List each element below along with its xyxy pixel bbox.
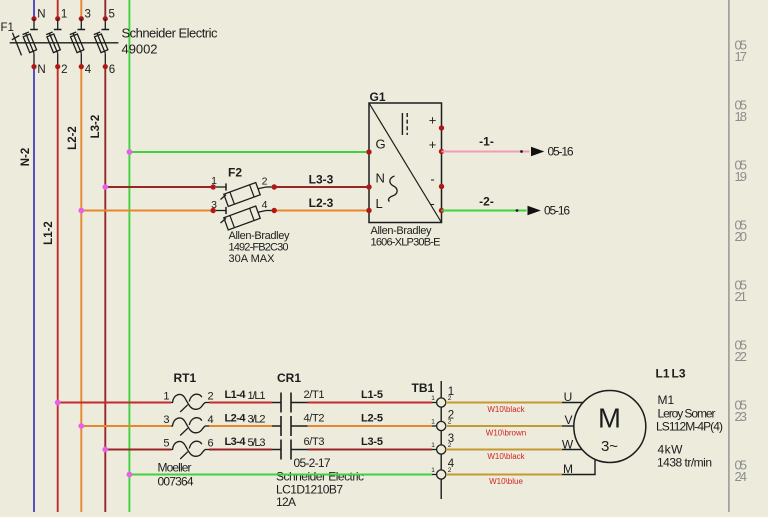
svg-text:Allen-Bradley: Allen-Bradley — [229, 230, 291, 242]
G1 terminal dots — [366, 125, 444, 213]
fuse F2 pole 2 pin numbers — [211, 199, 268, 211]
svg-text:2/T1: 2/T1 — [304, 389, 325, 401]
wire W10 core 3 — [446, 449, 583, 451]
svg-text:3: 3 — [85, 9, 91, 21]
row reference 05-24 — [735, 458, 748, 485]
svg-text:L3-3: L3-3 — [309, 172, 334, 186]
svg-text:5/L3: 5/L3 — [248, 437, 266, 449]
wire L2-3 F2.4 to G1.L — [274, 210, 369, 212]
svg-text:L3-5: L3-5 — [361, 436, 383, 448]
wire L2 feeder to RT1 pole 2 — [81, 425, 171, 427]
arrow reference 05-16 lower — [528, 204, 571, 218]
svg-text:W10\black: W10\black — [487, 452, 525, 461]
svg-text:N-2: N-2 — [20, 148, 32, 167]
svg-text:G: G — [376, 137, 386, 152]
svg-text:2: 2 — [262, 176, 268, 188]
svg-text:W10\brown: W10\brown — [486, 428, 526, 437]
svg-text:1: 1 — [431, 419, 435, 426]
svg-text:L3-2: L3-2 — [90, 115, 102, 139]
svg-text:Schneider Electric: Schneider Electric — [122, 26, 219, 41]
svg-text:L2-2: L2-2 — [67, 126, 79, 150]
G1 AC sine symbol — [389, 176, 398, 202]
motor M1 annotation — [656, 366, 724, 469]
svg-text:2: 2 — [448, 467, 452, 474]
drawing frame column line — [728, 0, 730, 512]
motor M1 — [574, 391, 646, 463]
svg-text:4kW: 4kW — [658, 442, 684, 456]
svg-text:M: M — [598, 403, 621, 434]
svg-text:-: - — [430, 172, 434, 187]
terminal TB1.1 — [431, 386, 454, 407]
svg-text:6/T3: 6/T3 — [304, 436, 325, 448]
svg-text:L: L — [376, 196, 383, 211]
svg-text:+: + — [429, 113, 437, 128]
junction bus pole 3 — [102, 447, 108, 453]
svg-text:2: 2 — [448, 395, 452, 402]
svg-text:Moeller: Moeller — [158, 461, 192, 475]
row reference 05-23 — [735, 398, 748, 425]
contactor CR1 pole 3 contact — [281, 440, 291, 460]
svg-text:05-16: 05-16 — [548, 145, 574, 159]
terminal strip TB1 rail — [440, 381, 442, 499]
svg-text:Allen-Bradley: Allen-Bradley — [371, 225, 433, 237]
svg-text:L2-5: L2-5 — [361, 413, 383, 425]
svg-text:W10\blue: W10\blue — [489, 477, 523, 486]
svg-text:1: 1 — [211, 175, 217, 187]
svg-text:6: 6 — [109, 64, 115, 76]
svg-text:007364: 007364 — [158, 475, 194, 489]
svg-text:1: 1 — [431, 467, 435, 474]
svg-text:3~: 3~ — [601, 438, 618, 455]
svg-text:M: M — [563, 462, 573, 476]
junction L2 bus — [78, 208, 84, 214]
contactor CR1 pole 2 contact — [281, 416, 291, 436]
wire green bus to TB1.4 — [129, 474, 436, 476]
svg-text:Schneider Electric: Schneider Electric — [276, 470, 364, 484]
svg-text:21: 21 — [735, 289, 748, 304]
svg-text:W: W — [562, 437, 574, 451]
svg-text:Leroy Somer: Leroy Somer — [658, 406, 716, 420]
svg-text:2: 2 — [448, 442, 452, 449]
CR1 part text — [276, 470, 364, 510]
wire -2- green DC- — [442, 209, 527, 212]
svg-text:17: 17 — [735, 49, 748, 64]
svg-text:19: 19 — [735, 169, 748, 184]
junction L3 bus — [102, 184, 108, 190]
svg-text:2: 2 — [448, 419, 452, 426]
svg-text:1438 tr/min: 1438 tr/min — [657, 456, 712, 470]
CR1 cross-reference 05-2-17 — [291, 456, 331, 470]
junction green bus — [126, 149, 132, 155]
svg-text:L1-4: L1-4 — [225, 389, 247, 401]
svg-text:F2: F2 — [228, 166, 242, 180]
wire L1-4 RT1 to CR1 — [209, 402, 281, 404]
svg-text:20: 20 — [735, 229, 748, 244]
svg-text:L2-4: L2-4 — [225, 413, 247, 425]
svg-text:L3: L3 — [672, 366, 686, 380]
power supply G1 box — [369, 103, 442, 223]
svg-text:+: + — [429, 137, 437, 152]
wire L2-4 RT1 to CR1 — [209, 425, 281, 427]
wire N-2 vertical blue bus — [33, 0, 35, 512]
svg-text:TB1: TB1 — [412, 381, 435, 395]
row reference 05-22 — [735, 338, 748, 365]
fuse F2 pole 1 — [211, 183, 277, 207]
svg-text:5: 5 — [109, 9, 115, 21]
svg-text:4: 4 — [262, 199, 268, 211]
svg-text:U: U — [564, 390, 573, 404]
svg-text:1606-XLP30B-E: 1606-XLP30B-E — [371, 237, 441, 249]
svg-text:05-16: 05-16 — [544, 204, 570, 218]
junction bus pole 1 — [55, 400, 61, 406]
svg-text:L1: L1 — [656, 366, 670, 380]
F1 part text Schneider Electric 49002 — [122, 26, 219, 57]
svg-text:12A: 12A — [276, 495, 296, 509]
fuse-switch F1 actuator — [12, 33, 22, 56]
svg-text:3/L2: 3/L2 — [248, 413, 266, 425]
svg-text:2: 2 — [61, 64, 67, 76]
G1 terminal labels — [376, 113, 437, 212]
fuse F1 pole 3 — [70, 9, 92, 77]
svg-text:3: 3 — [211, 199, 217, 211]
wire L3-3 F2.2 to G1.N — [274, 186, 369, 188]
svg-text:-: - — [430, 196, 434, 211]
svg-text:4: 4 — [85, 64, 92, 76]
svg-text:24: 24 — [735, 469, 748, 484]
wire L3-2 vertical dark-red bus — [104, 0, 106, 512]
row reference 05-20 — [735, 218, 748, 245]
svg-text:23: 23 — [735, 409, 748, 424]
RT1 pole 2 pin numbers — [163, 414, 213, 426]
G1 DC symbol — [402, 113, 407, 135]
svg-text:F1: F1 — [1, 22, 14, 34]
svg-text:L3-4: L3-4 — [225, 436, 247, 448]
wire W10 core 1 — [446, 402, 583, 404]
svg-text:30A MAX: 30A MAX — [229, 253, 276, 265]
fuse F2 pole 2 — [211, 206, 277, 230]
svg-text:1: 1 — [431, 442, 435, 449]
junction bus pole 2 — [78, 423, 84, 429]
svg-text:-1-: -1- — [479, 134, 494, 148]
F2 part text — [229, 230, 291, 265]
contactor CR1 pole 1 contact — [281, 393, 291, 413]
svg-text:05-2-17: 05-2-17 — [294, 456, 331, 470]
svg-text:4: 4 — [208, 414, 214, 426]
wire L3 feeder to RT1 pole 3 — [105, 449, 171, 451]
junction green bus bottom — [126, 472, 132, 478]
row reference 05-17 — [735, 38, 748, 65]
svg-text:N: N — [37, 64, 45, 76]
wire L2 to F2.3 — [81, 210, 213, 212]
wire green to G1.G — [129, 151, 369, 153]
svg-text:G1: G1 — [370, 90, 386, 104]
RT1 part text Moeller 007364 — [158, 461, 194, 489]
wire ground-green vertical bus — [128, 0, 130, 512]
thermal element RT1 pole 1 — [171, 394, 209, 412]
svg-text:3: 3 — [163, 414, 169, 426]
thermal element RT1 pole 2 — [171, 418, 209, 436]
svg-text:1: 1 — [61, 9, 67, 21]
row reference 05-21 — [735, 278, 748, 305]
svg-text:22: 22 — [735, 349, 748, 364]
fuse-switch F1 linkage bar — [10, 42, 119, 44]
terminal TB1.4 — [431, 458, 455, 479]
wire L1-2 vertical red bus — [57, 0, 59, 512]
svg-text:-2-: -2- — [479, 195, 494, 209]
wire L2-5 CR1 to TB1 — [291, 425, 437, 427]
G1 part text — [371, 225, 441, 249]
svg-text:6: 6 — [208, 438, 214, 450]
svg-text:W10\black: W10\black — [487, 405, 525, 414]
svg-text:49002: 49002 — [122, 41, 158, 56]
wire L3-5 CR1 to TB1 — [291, 449, 437, 451]
wire L3 to F2.1 — [105, 186, 213, 188]
arrow reference 05-16 upper — [531, 145, 574, 159]
svg-text:M1: M1 — [658, 393, 675, 407]
svg-text:5: 5 — [163, 438, 169, 450]
wire L3-4 RT1 to CR1 — [209, 449, 281, 451]
fuse F2 pole 1 pin numbers — [211, 175, 268, 188]
wire W10 core 4 — [446, 459, 595, 474]
svg-text:1: 1 — [163, 391, 169, 403]
fuse F1 pole 4 — [94, 9, 115, 77]
svg-text:1: 1 — [431, 395, 435, 402]
terminal TB1.2 — [431, 410, 454, 431]
svg-text:N: N — [376, 171, 385, 186]
svg-text:L2-3: L2-3 — [309, 196, 334, 210]
svg-text:18: 18 — [735, 109, 748, 124]
svg-text:L1-5: L1-5 — [361, 389, 383, 401]
svg-text:RT1: RT1 — [174, 371, 197, 385]
wire L1-5 CR1 to TB1 — [291, 402, 437, 404]
RT1 pole 1 pin numbers — [163, 391, 213, 403]
row reference 05-18 — [735, 98, 748, 125]
svg-text:2: 2 — [208, 391, 214, 403]
RT1 pole 3 pin numbers — [163, 438, 213, 450]
svg-text:N: N — [37, 9, 45, 21]
fuse F1 pole 2 — [46, 9, 67, 77]
svg-text:L1-2: L1-2 — [43, 221, 55, 245]
svg-text:LS112M-4P(4): LS112M-4P(4) — [656, 420, 723, 434]
svg-text:CR1: CR1 — [277, 371, 301, 385]
svg-text:1/L1: 1/L1 — [248, 390, 266, 402]
svg-text:4/T2: 4/T2 — [304, 413, 325, 425]
wire W10 core 2 — [446, 425, 574, 427]
terminal TB1.3 — [431, 433, 454, 454]
wire -1- pink DC+ — [442, 150, 530, 153]
row reference 05-19 — [735, 158, 748, 185]
wire L2-2 vertical orange bus — [80, 0, 82, 512]
svg-text:V: V — [564, 413, 572, 427]
wire L1 feeder to RT1 pole 1 — [58, 402, 171, 404]
svg-text:1492-FB2C30: 1492-FB2C30 — [229, 242, 289, 254]
thermal element RT1 pole 3 — [171, 441, 209, 459]
fuse F1 pole 1 — [23, 9, 46, 77]
